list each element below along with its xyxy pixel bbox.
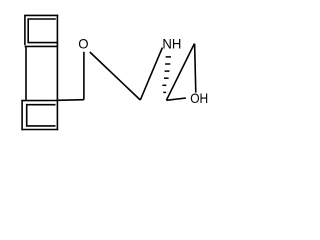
svg-text:O: O [78, 36, 89, 51]
svg-text:NH: NH [162, 36, 181, 51]
svg-text:OH: OH [190, 91, 208, 106]
